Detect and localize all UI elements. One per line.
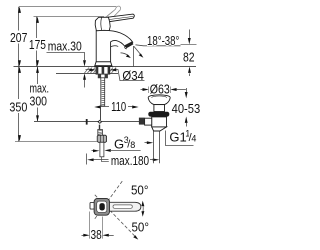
dimension 40-53 line (185, 88, 188, 127)
dimension 82 line top (189, 30, 191, 39)
dashed ray upper-right 50deg (95, 180, 124, 219)
svg-text:Ø63: Ø63 (150, 82, 170, 97)
slab hatching right (109, 68, 117, 74)
slab hatching left (85, 68, 97, 74)
max.30 up arrow below slab (83, 73, 86, 87)
dimension 175 line (36, 17, 38, 67)
faucet body outline (96, 30, 133, 62)
lower ray arrowhead (133, 235, 138, 239)
pop-up rod end bar (86, 119, 88, 125)
svg-text:350: 350 (9, 99, 27, 114)
drain body taper (152, 127, 167, 131)
svg-text:300: 300 (30, 94, 48, 109)
G3/8 diameter arrows at hose (92, 149, 111, 152)
label G1 1/4 leader (166, 131, 194, 146)
angle arc arrow left (121, 53, 130, 57)
joint lower stub (99, 125, 101, 130)
coupling nut (97, 135, 106, 142)
svg-text:8: 8 (130, 140, 135, 150)
pop-up ball joint (97, 120, 102, 124)
svg-text:207: 207 (10, 30, 27, 45)
dimension 110 line (94, 106, 138, 109)
handle center blob (99, 203, 104, 210)
lever neck inner line (100, 18, 103, 31)
mounting nut horseshoe (98, 74, 101, 78)
countertop slab bottom line (56, 73, 118, 75)
svg-text:40-53: 40-53 (172, 101, 201, 116)
spout inner curve (111, 46, 119, 47)
svg-text:max.30: max.30 (48, 39, 82, 54)
dimension diam34 arrows (86, 68, 121, 80)
handle left tab (90, 202, 94, 209)
dimension 207 line (18, 7, 20, 67)
threaded mounting stud (101, 78, 105, 106)
dimension 350 arrows (18, 67, 21, 142)
arrow to tailpipe (leader) (145, 141, 154, 144)
label G3/8 underline (110, 150, 141, 152)
350 reference line at hose end (15, 141, 97, 143)
swing double-arrow at lever tip (142, 204, 144, 214)
aerator tip dark (125, 42, 134, 49)
handle base inner (97, 201, 107, 212)
threaded adapter (98, 130, 103, 136)
drain side port (145, 118, 152, 125)
svg-text:38: 38 (91, 227, 102, 242)
label max.30 underline leader (47, 53, 85, 61)
countertop top line (14, 66, 197, 68)
faucet base (95, 62, 113, 67)
dimension 38 arrows (82, 234, 114, 237)
drain rod clamp (139, 118, 145, 125)
handle base outer (94, 198, 109, 215)
dimension 350 line (18, 67, 20, 142)
mounting shank block (96, 67, 110, 75)
dimension 175 arrows (36, 17, 39, 67)
angle ray 38deg (134, 46, 142, 55)
svg-text:G: G (114, 136, 124, 151)
svg-text:50°: 50° (131, 183, 149, 198)
lever arm top view (110, 202, 141, 211)
svg-text:175: 175 (29, 37, 46, 52)
faucet lever handle bar (108, 14, 135, 22)
faucet lever neck (95, 17, 110, 31)
hose end stub leader (102, 157, 109, 162)
svg-text:4: 4 (191, 134, 196, 144)
drain plug top ellipse (148, 95, 170, 101)
drain flange dome (148, 98, 170, 105)
svg-text:max.180: max.180 (111, 153, 149, 168)
lever arm slot (113, 205, 132, 208)
pop-up horizontal rod (34, 121, 140, 123)
dimension 82 line bottom (189, 73, 191, 76)
dimension max.300 arrows (36, 67, 39, 122)
svg-text:18°-38°: 18°-38° (147, 33, 179, 48)
drain tailpipe (154, 131, 160, 163)
dimension max.180 line (87, 154, 160, 165)
drain: dimension diam63 (141, 87, 186, 94)
svg-text:110: 110 (111, 99, 126, 114)
drain body (152, 117, 167, 127)
drain rubber gasket (148, 112, 169, 117)
dimension 38 extension lines (90, 212, 103, 239)
dimension max.300 line (37, 67, 39, 122)
dimension 82 extension line (181, 44, 197, 46)
svg-text:50°: 50° (132, 220, 150, 235)
extension line handle-top (175) (34, 16, 105, 18)
pop-up rod vertical (100, 106, 102, 120)
max.30 down arrow to counter (83, 60, 86, 66)
svg-text:G1: G1 (169, 130, 186, 145)
dimension 207 arrows (18, 7, 21, 67)
supply hose tube (100, 142, 104, 157)
angle reference vertical line (133, 46, 135, 67)
extension line lever-top (207) (19, 6, 116, 8)
drain neck (154, 105, 165, 112)
label 18-38 leader (136, 45, 181, 46)
dashed ray lower-right 50deg (95, 195, 136, 237)
svg-text:82: 82 (183, 50, 195, 65)
faucet ghost lever raised (thin) (105, 6, 121, 21)
